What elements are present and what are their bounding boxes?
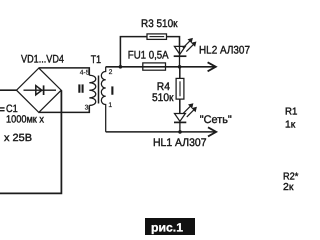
resistor R3 branch wires: [120, 37, 147, 67]
svg-text:х 25В: х 25В: [4, 133, 32, 144]
svg-text:C1: C1: [6, 103, 18, 115]
svg-text:3: 3: [85, 105, 89, 112]
svg-text:510к: 510к: [152, 92, 174, 104]
bridge rectifier VD1...VD4 diamond: [17, 68, 62, 112]
arrow to mains (top): [208, 62, 216, 71]
svg-text:4-5: 4-5: [80, 70, 90, 77]
svg-text:R3 510к: R3 510к: [141, 18, 178, 30]
svg-text:2к: 2к: [283, 182, 294, 193]
resistor R4 branch wire: [179, 67, 181, 79]
svg-text:I: I: [111, 85, 114, 97]
svg-text:R1: R1: [285, 107, 298, 118]
capacitor C1 plates at left edge: [0, 108, 5, 111]
wire bridge right corner down and left to edge (DC plus): [0, 90, 61, 193]
transformer T1 winding I: [101, 67, 105, 132]
figure caption ris.1: [145, 218, 195, 235]
svg-text:рис.1: рис.1: [151, 221, 183, 235]
junction node HL1 bottom: [178, 130, 182, 134]
svg-text:"Сеть": "Сеть": [200, 114, 232, 126]
svg-text:HL2 АЛ307: HL2 АЛ307: [199, 45, 250, 57]
wire DC minus from left edge to bridge left corner: [0, 89, 17, 91]
transformer T1 core: [98, 76, 100, 104]
diode symbol inside bridge: [24, 85, 57, 95]
resistor R4 510k: [176, 78, 184, 99]
LED HL2: [174, 46, 187, 66]
arrow to mains (bottom): [208, 127, 216, 136]
svg-text:VD1...VD4: VD1...VD4: [21, 54, 64, 66]
transformer T1 winding II: [89, 75, 95, 105]
LED HL2 light arrows: [183, 38, 197, 52]
svg-text:FU1 0,5A: FU1 0,5A: [128, 50, 169, 62]
junction node R3/fuse left: [119, 65, 123, 69]
LED HL1: [174, 99, 186, 132]
wire mains top: winding I pin2 to arrow: [106, 66, 215, 68]
junction node HL2/R4/fuse right: [178, 65, 182, 69]
svg-text:HL1 АЛ307: HL1 АЛ307: [153, 137, 207, 149]
svg-text:2: 2: [109, 69, 113, 76]
svg-text:T1: T1: [91, 54, 101, 66]
resistor R3 510k: [147, 34, 167, 40]
wire bridge top corner to transformer winding II top: [39, 68, 90, 75]
svg-text:1: 1: [108, 102, 112, 109]
wire mains bottom: winding I pin1 to arrow: [106, 131, 216, 133]
wire bridge bottom corner to winding II bottom (AC): [39, 105, 90, 112]
svg-text:II: II: [78, 83, 84, 95]
svg-text:1к: 1к: [285, 120, 296, 131]
LED HL1 light arrows: [183, 103, 197, 117]
svg-text:1000мк х: 1000мк х: [6, 114, 45, 125]
fuse FU1 0,5A: [143, 63, 166, 70]
